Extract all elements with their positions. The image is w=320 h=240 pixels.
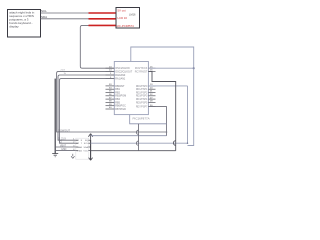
svg-text:RD5/PSP5: RD5/PSP5 [136,101,148,104]
branch wire down to L2 [138,124,140,151]
hop over W_B at 138.5 [136,130,138,134]
RTC right bus dark vertical [90,140,92,160]
wire OSC2 long loop to L1 [57,71,167,132]
svg-text:RA0/AN0: RA0/AN0 [115,74,126,77]
wire RA1 to RTC X2 [59,79,114,144]
left pin labels [115,67,132,111]
pin numbers left of component [73,139,75,151]
svg-text:I2C-PCF8574: I2C-PCF8574 [117,24,135,28]
left pin stubs [106,68,115,109]
svg-text:LCD 16: LCD 16 [118,16,128,20]
inner pin numbers column [81,140,83,152]
svg-text:SQW/OUT: SQW/OUT [59,130,71,133]
svg-text:PIC16F877A: PIC16F877A [133,117,150,121]
svg-text:RB7/PGD: RB7/PGD [115,108,126,111]
wire RA0 to RTC X1 [58,75,114,140]
svg-text:VBAT: VBAT [60,144,67,147]
svg-text:SDA: SDA [84,146,89,149]
I2C module U2 [116,8,140,29]
svg-text:GND: GND [61,148,67,151]
hop over L1 at 138.5 [136,141,138,145]
junction at 170,143 [166,131,168,133]
wire from module pin3 down to IC pin OSC1 [80,25,114,68]
wire RC0 to right rail [148,67,193,69]
right pin stubs [148,68,155,106]
microcontroller U1 PIC16F877A [106,62,156,121]
hop over L1 [173,141,175,146]
wire W2 note box to module pin2 [41,18,89,20]
red pin wire P3 [89,24,117,26]
wire W1 note box to module pin1 [41,12,89,14]
bottom long wire L2 SDA [91,150,176,152]
right pin labels [135,67,148,108]
left pin stubs [75,140,78,150]
ground wire dark [54,79,56,154]
wire GND branch [55,150,75,152]
right pin stubs to bus [88,140,90,150]
svg-text:VCC: VCC [83,151,88,153]
RTC U3 DS1307 [73,138,90,159]
svg-text:display: display [9,25,19,29]
junction right rail [193,67,195,69]
VCC power arrow above bus [88,134,92,140]
ground arrow below component [71,154,74,159]
svg-text:5V out: 5V out [118,9,126,13]
red pin wire P2 [89,18,117,20]
wire VBAT branch [55,146,75,148]
top loop wire VDD [131,47,194,146]
svg-text:LM16: LM16 [129,13,136,17]
svg-text:OSC2/CLKOUT: OSC2/CLKOUT [115,70,132,73]
wire bus top to right [91,135,167,137]
ground arrow at bus bottom [89,158,93,161]
rung wire from IC bottom [130,115,167,124]
svg-text:SDA: SDA [41,15,47,19]
note box annotation [8,10,41,38]
svg-text:SQ: SQ [85,140,88,142]
ground symbol [52,154,58,157]
svg-text:RC7/RX/DT: RC7/RX/DT [135,70,148,73]
svg-text:SCL: SCL [41,9,47,13]
red pin wire P1 [89,12,117,14]
wire RC1 down right dark [148,71,175,150]
wire RD7 around to power bus [148,107,166,136]
wire RD0 to L1 vertical [148,85,187,87]
left pin numbers [109,66,112,109]
bottom long wire L1 SCL [91,86,188,143]
junction L1 rail [187,143,188,144]
svg-text:RA1/AN1: RA1/AN1 [115,78,126,81]
svg-text:RD7/PSP7: RD7/PSP7 [136,106,148,109]
right pin numbers [150,66,153,106]
